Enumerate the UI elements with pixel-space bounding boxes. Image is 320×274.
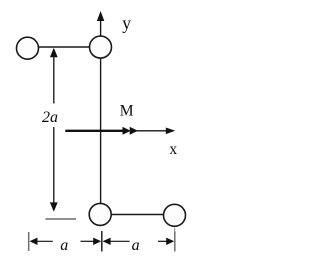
dimension tick left: [28, 232, 30, 251]
svg-text:a: a: [60, 237, 68, 254]
dimension a (left) right arrowhead: [93, 238, 101, 245]
mass circle bottom-right: [164, 204, 186, 226]
dimension tick center: [101, 231, 103, 252]
dimension 2a vertical line lower segment: [53, 127, 55, 205]
svg-text:2a: 2a: [42, 109, 58, 126]
svg-text:y: y: [122, 13, 131, 33]
leader below right mass: [174, 228, 176, 232]
mass circle top-center: [90, 36, 112, 58]
mass circle top-left: [17, 37, 39, 59]
dimension tick right: [174, 232, 176, 252]
mass circle bottom-center: [89, 203, 111, 225]
svg-text:M: M: [120, 103, 134, 120]
dimension 2a vertical line upper segment: [53, 54, 55, 104]
svg-text:x: x: [169, 141, 177, 158]
dimension a (right) right arrowhead: [166, 238, 174, 245]
dimension a (left) left shaft: [35, 240, 53, 242]
dimension 2a top arrowhead: [50, 48, 58, 57]
dimension a (left) right shaft: [81, 240, 95, 242]
moment M thick shaft: [65, 130, 127, 132]
dimension a (right) right shaft: [158, 240, 167, 242]
x-axis arrowhead: [166, 128, 176, 135]
wire: x-axis thin line: [135, 130, 168, 132]
wire: bottom connector between center mass and right mass: [102, 214, 172, 216]
dimension 2a bottom arrowhead: [50, 202, 58, 211]
dimension a (right) left shaft: [110, 240, 130, 242]
datum line under 2a arrow: [46, 218, 77, 220]
wire: top connector between left mass and axis: [30, 46, 99, 48]
wire: y-axis vertical line: [100, 18, 102, 204]
moment M double arrowhead 1: [123, 127, 131, 135]
dimension a (left) left arrowhead: [30, 238, 38, 245]
svg-text:a: a: [132, 237, 140, 254]
y-axis arrowhead: [97, 11, 104, 21]
moment M double arrowhead 2: [130, 127, 138, 135]
dimension a (right) left arrowhead: [103, 238, 111, 245]
